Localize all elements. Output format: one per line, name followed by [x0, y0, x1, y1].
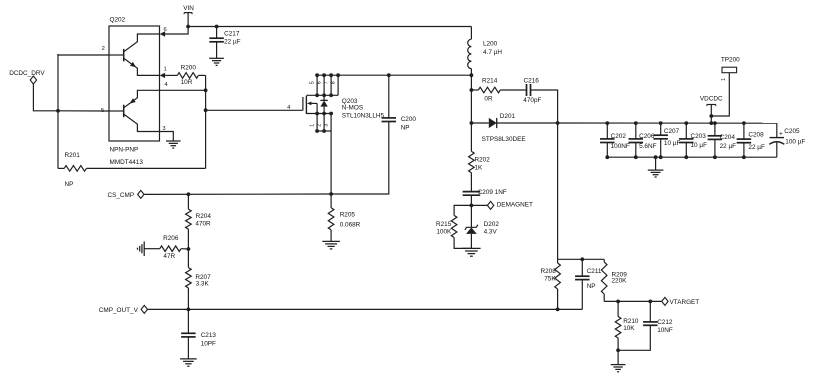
Q202 pin 2 label [102, 46, 105, 52]
svg-text:R210: R210 [623, 318, 639, 325]
ground R206 [137, 241, 144, 256]
svg-text:C205: C205 [784, 128, 800, 135]
svg-text:C203: C203 [691, 133, 707, 140]
capacitor C208 [737, 123, 765, 157]
svg-text:22 µF: 22 µF [720, 143, 737, 150]
svg-text:470pF: 470pF [523, 97, 541, 104]
resistor R214 [471, 78, 526, 103]
transistor Q202 PNP [109, 90, 160, 131]
connector DCDC_DRV [9, 70, 45, 84]
resistor R209 [601, 259, 627, 301]
svg-text:470R: 470R [195, 220, 211, 227]
svg-text:DEMAGNET: DEMAGNET [497, 202, 533, 209]
svg-text:10 µF: 10 µF [691, 142, 708, 149]
svg-text:R208: R208 [541, 268, 557, 275]
svg-text:5.6NF: 5.6NF [639, 143, 656, 150]
svg-text:75K: 75K [544, 276, 556, 283]
svg-text:C207: C207 [664, 128, 680, 135]
resistor R207 [186, 249, 212, 309]
connector DEMAGNET [471, 201, 533, 209]
transistor Q202 box [109, 16, 160, 141]
resistor R205 [328, 194, 360, 241]
transistor Q203 N-MOS [303, 75, 338, 131]
Q202 pin 6 arrow [160, 27, 167, 37]
resistor R202 [469, 123, 491, 192]
resistor R204 [186, 194, 212, 249]
resistor R208 [541, 259, 561, 309]
capacitor C217 [209, 27, 240, 59]
capacitor C212 [618, 301, 673, 350]
svg-text:10 µF: 10 µF [664, 140, 681, 147]
svg-text:STPS8L30DEE: STPS8L30DEE [482, 136, 526, 143]
svg-text:22 µF: 22 µF [224, 39, 241, 46]
ground cap bank [648, 157, 664, 177]
svg-text:VDCDC: VDCDC [700, 95, 723, 102]
wire CS_CMP [144, 192, 331, 196]
capacitor C203 [679, 123, 707, 157]
svg-text:100 µF: 100 µF [785, 138, 805, 145]
svg-text:VTARGET: VTARGET [670, 299, 700, 306]
capacitor C209 [463, 189, 507, 207]
svg-text:C202: C202 [611, 133, 627, 140]
wire VIN rail [186, 25, 471, 29]
svg-text:VIN: VIN [183, 5, 194, 12]
svg-text:10NF: 10NF [657, 327, 673, 334]
wire feedback top [558, 257, 605, 261]
svg-text:C204: C204 [720, 134, 736, 141]
svg-text:N-MOS: N-MOS [342, 105, 363, 112]
capacitor C204 [708, 123, 737, 157]
Q202 part labels [110, 146, 144, 166]
svg-text:3.3K: 3.3K [196, 280, 210, 287]
wire left vertical [57, 54, 59, 168]
svg-text:R206: R206 [163, 235, 179, 242]
ground C217 [209, 58, 224, 65]
capacitor C206 [629, 123, 657, 157]
wire DCDC_DRV to net [33, 84, 59, 113]
capacitor C211 [575, 259, 602, 309]
wire source down [329, 131, 333, 196]
Q203 pin numbers top [310, 81, 337, 84]
connector VTARGET [662, 297, 700, 306]
svg-text:100NF: 100NF [611, 143, 630, 150]
capacitor C207 [653, 123, 680, 157]
svg-text:4: 4 [164, 82, 168, 88]
wire pin 4 [160, 89, 206, 91]
diode D201 [471, 113, 559, 143]
transistor Q202 NPN [109, 34, 160, 75]
svg-text:NP: NP [587, 283, 596, 290]
capacitor C200 [331, 75, 416, 194]
svg-text:1: 1 [721, 78, 727, 81]
ground Q202 pin 3 [166, 141, 181, 148]
Q202 pin 5 label [101, 108, 104, 114]
Q202 pin 4 label [164, 82, 168, 88]
svg-text:220K: 220K [612, 278, 628, 285]
svg-text:10K: 10K [623, 325, 635, 332]
svg-text:2: 2 [317, 124, 323, 127]
svg-text:0.068R: 0.068R [340, 222, 361, 229]
svg-text:R214: R214 [482, 78, 498, 85]
svg-text:R201: R201 [65, 152, 81, 159]
svg-text:CMP_OUT_V: CMP_OUT_V [99, 307, 139, 314]
svg-text:C211: C211 [587, 268, 602, 275]
svg-text:MMDT4413: MMDT4413 [110, 159, 144, 166]
test point TP200 [711, 57, 740, 117]
Q202 pin 3 label [162, 126, 165, 132]
svg-text:3: 3 [324, 124, 330, 127]
svg-text:TP200: TP200 [721, 57, 740, 64]
wire switch node vertical [470, 75, 474, 125]
svg-text:8: 8 [331, 81, 337, 84]
svg-text:C208: C208 [748, 131, 764, 138]
capacitor C213 [181, 309, 216, 359]
resistor R215 [436, 205, 471, 248]
svg-text:C213: C213 [201, 332, 217, 339]
wire VTARGET [604, 300, 662, 304]
svg-text:1: 1 [164, 67, 167, 73]
wire VIN to pin 6 [165, 27, 188, 35]
svg-text:R204: R204 [196, 213, 212, 220]
wire pin 2 [58, 54, 109, 55]
wire output bus [558, 121, 777, 125]
svg-text:1: 1 [310, 124, 316, 127]
Q202 pin 1 arrow [160, 67, 167, 78]
wire cap bank bottom bus [605, 155, 776, 159]
svg-text:NPN-PNP: NPN-PNP [110, 146, 139, 153]
wire CMP_OUT_V [147, 308, 582, 312]
svg-text:5: 5 [310, 81, 316, 84]
Q203 part labels [342, 98, 385, 119]
svg-text:R215: R215 [436, 221, 452, 228]
svg-text:D201: D201 [500, 113, 516, 120]
svg-text:7: 7 [324, 81, 330, 84]
capacitor C205 polarized [769, 123, 805, 157]
svg-text:C206: C206 [639, 133, 655, 140]
resistor R200 [165, 65, 206, 86]
svg-text:R200: R200 [181, 65, 197, 72]
svg-text:NP: NP [65, 181, 74, 188]
svg-text:100K: 100K [436, 228, 452, 235]
svg-text:C217: C217 [224, 30, 240, 37]
svg-text:Q202: Q202 [110, 16, 126, 23]
svg-text:L200: L200 [483, 41, 498, 48]
capacitor C202 [600, 123, 630, 157]
wire gate [206, 105, 303, 111]
diode D202 zener [465, 205, 499, 248]
wire gate drive vertical [204, 75, 208, 168]
svg-text:1K: 1K [475, 165, 484, 172]
wire output node vertical [557, 123, 559, 259]
connector CS_CMP [108, 190, 145, 199]
resistor R210 [615, 301, 639, 352]
svg-text:4.3V: 4.3V [484, 229, 498, 236]
svg-text:CS_CMP: CS_CMP [108, 192, 135, 199]
svg-text:NP: NP [401, 125, 410, 132]
capacitor C216 [523, 77, 557, 123]
power symbol VDCDC [700, 95, 723, 123]
svg-text:6: 6 [164, 27, 167, 33]
svg-text:C212: C212 [657, 319, 673, 326]
ground C213 [180, 359, 197, 366]
svg-text:22 µF: 22 µF [748, 144, 765, 151]
resistor R206 [144, 235, 190, 260]
inductor L200 [468, 27, 503, 78]
connector CMP_OUT_V [99, 305, 148, 314]
resistor R201 [58, 152, 206, 188]
svg-text:10R: 10R [181, 79, 193, 86]
power symbol VIN [183, 5, 194, 27]
svg-text:4.7 µH: 4.7 µH [483, 49, 502, 56]
svg-text:R205: R205 [340, 212, 356, 219]
wire Q202 pin 3 [160, 132, 174, 142]
svg-text:47R: 47R [163, 253, 175, 260]
ground R205 [322, 241, 340, 249]
ground D202 [462, 248, 480, 256]
svg-text:2: 2 [102, 46, 105, 52]
ground R210 [611, 350, 626, 372]
svg-text:C200: C200 [401, 116, 417, 123]
svg-text:+: + [779, 130, 783, 137]
svg-text:D202: D202 [484, 221, 500, 228]
svg-text:C216: C216 [524, 77, 540, 84]
svg-text:R202: R202 [475, 156, 491, 163]
svg-text:DCDC_DRV: DCDC_DRV [9, 70, 45, 77]
svg-text:STL10N3LLH5: STL10N3LLH5 [342, 112, 385, 119]
svg-text:10PF: 10PF [201, 340, 216, 347]
Q203 pin numbers bottom [310, 124, 330, 127]
svg-text:6: 6 [317, 81, 323, 84]
wire pin 5 [58, 110, 109, 112]
wire drain line [315, 73, 471, 133]
svg-text:0R: 0R [484, 95, 493, 102]
svg-text:C209 1NF: C209 1NF [478, 189, 507, 196]
